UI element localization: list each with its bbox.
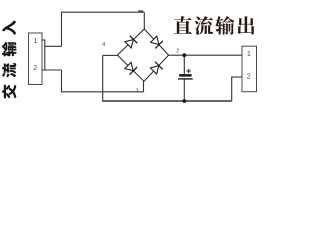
wire: rise to bridge bottom vertex <box>143 81 145 92</box>
svg-text:2: 2 <box>176 48 179 54</box>
capacitor C1 top lead <box>183 55 185 74</box>
wire: DC+ wire y=55.2 <box>169 54 242 56</box>
svg-text:2: 2 <box>33 65 37 72</box>
wire: drop to bridge top vertex <box>143 12 145 29</box>
wire: J1 pin2 stub + horizontal y=70 <box>42 69 62 71</box>
svg-text:3: 3 <box>135 88 138 94</box>
diode D-top-right (anode T, cathode R) <box>150 35 163 48</box>
capacitor C1 top plate <box>179 74 192 77</box>
junction dot bottom <box>182 99 186 103</box>
svg-text:1: 1 <box>247 51 251 58</box>
wire: left vertex lead y=55.4 <box>103 54 118 56</box>
wire: AC2 horizontal y=90 <box>61 91 144 93</box>
label DC output 直流输出 <box>174 16 192 34</box>
bridge rectifier D1-D4 diamond <box>117 29 168 81</box>
wire: top rail y=12.5 <box>61 11 144 13</box>
wire: J1 pin1 stub <box>42 39 45 41</box>
wire: bottom rail y=100 <box>102 100 232 102</box>
connector J2 (DC output) <box>242 46 257 91</box>
diode D-left-top (anode L, cathode T) <box>124 36 137 49</box>
junction dot top <box>182 53 186 57</box>
bridge pin 1 label (dash above top rail) <box>138 10 143 12</box>
svg-text:1: 1 <box>34 38 38 45</box>
diode D-left-bottom (anode L, cathode B) <box>124 62 137 75</box>
wire: rise x=231.7 <box>231 77 233 101</box>
wire: J2 pin2 stub y=77 <box>231 76 242 78</box>
wire: drop x=102.7 <box>102 55 104 101</box>
connector J1 (AC input) <box>29 33 43 85</box>
diode D-bottom-right (anode B, cathode R) <box>150 62 163 75</box>
capacitor C1 bottom plate <box>178 78 193 79</box>
svg-text:2: 2 <box>247 73 251 80</box>
wire: riser to top rail x=61.5 <box>61 12 63 46</box>
capacitor C1 plus sign <box>186 70 191 72</box>
capacitor C1 bottom lead <box>183 79 185 101</box>
svg-text:4: 4 <box>102 42 105 48</box>
wire: drop x=61.5 to AC2 line <box>61 70 63 92</box>
label AC input 交流输入 <box>2 21 17 99</box>
wire: pin1 jog horizontal y=46.3 <box>44 45 61 47</box>
wire: vertical jog x=44.8 <box>44 40 46 71</box>
